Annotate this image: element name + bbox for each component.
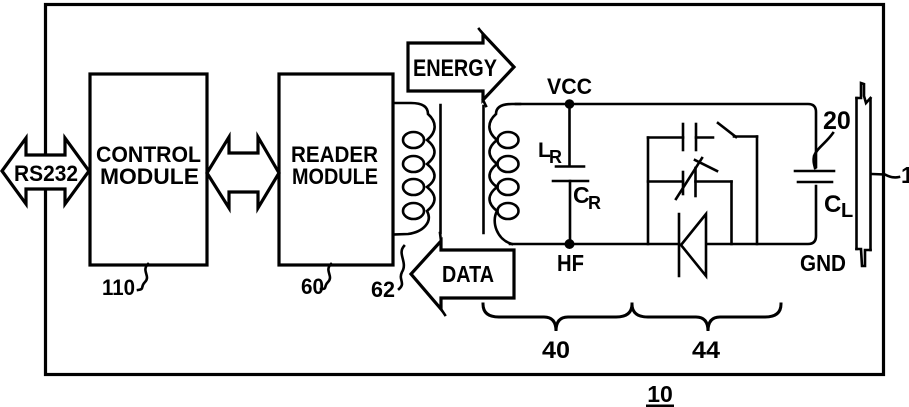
svg-text:DATA: DATA xyxy=(442,261,494,287)
svg-text:L: L xyxy=(841,200,853,222)
svg-text:44: 44 xyxy=(692,337,721,364)
svg-text:VCC: VCC xyxy=(547,74,592,99)
svg-text:R: R xyxy=(549,147,562,167)
svg-text:R: R xyxy=(588,193,601,213)
svg-text:62: 62 xyxy=(371,277,395,302)
svg-text:110: 110 xyxy=(102,275,135,300)
svg-text:20: 20 xyxy=(823,107,851,135)
svg-text:10: 10 xyxy=(647,381,673,407)
svg-text:1: 1 xyxy=(901,162,909,188)
svg-text:MODULE: MODULE xyxy=(292,164,378,189)
svg-text:C: C xyxy=(824,191,841,218)
svg-text:HF: HF xyxy=(557,250,584,276)
svg-text:GND: GND xyxy=(800,250,846,276)
svg-text:RS232: RS232 xyxy=(14,161,78,186)
svg-text:MODULE: MODULE xyxy=(100,164,199,189)
svg-text:60: 60 xyxy=(301,274,324,299)
svg-text:ENERGY: ENERGY xyxy=(413,55,497,82)
svg-text:40: 40 xyxy=(542,337,570,364)
